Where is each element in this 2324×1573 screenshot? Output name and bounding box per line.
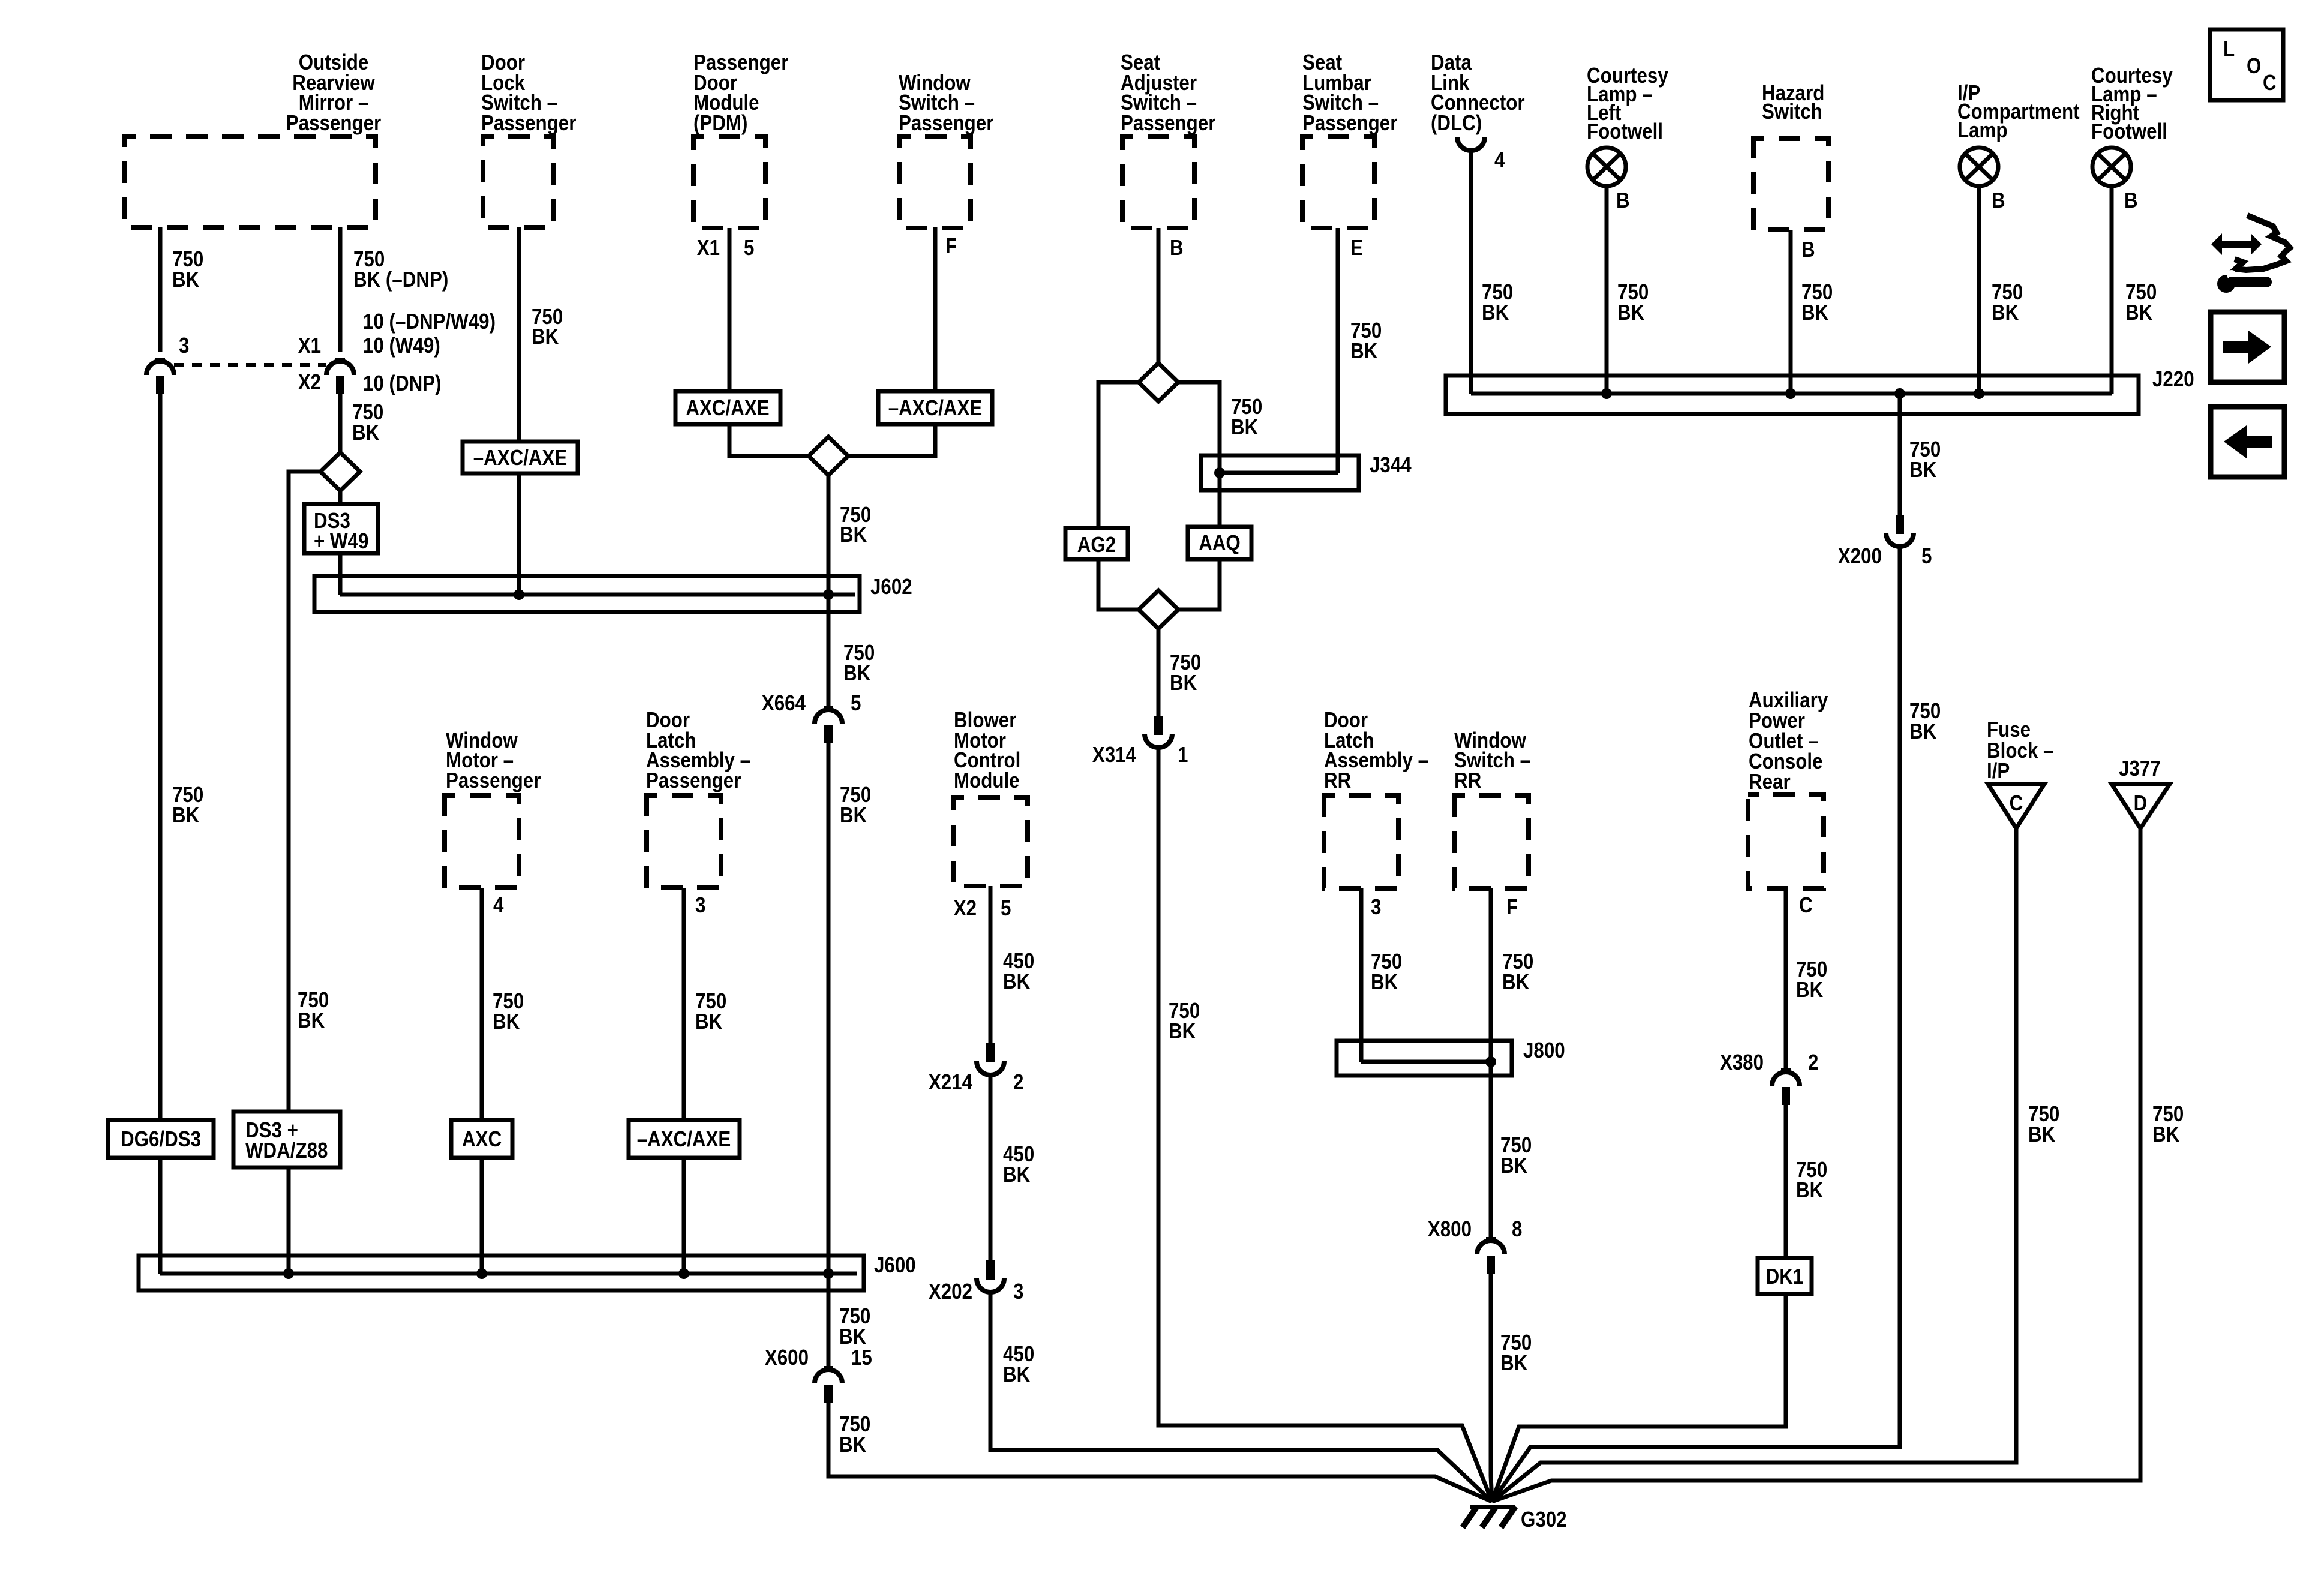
svg-text:BK: BK	[298, 1008, 325, 1033]
wire: X214 down to X202	[989, 1075, 993, 1260]
svg-text:–AXC/AXE: –AXC/AXE	[637, 1127, 731, 1152]
svg-text:F: F	[1506, 895, 1518, 920]
svg-text:J220: J220	[2152, 367, 2194, 392]
svg-text:Passenger: Passenger	[899, 111, 993, 136]
svg-text:E: E	[1350, 236, 1363, 260]
svg-text:X202: X202	[929, 1280, 972, 1304]
svg-text:X2: X2	[298, 370, 321, 395]
wire label 750 BK (I/P lamp)	[1992, 280, 2023, 325]
svg-text:F: F	[945, 234, 957, 259]
svg-text:RR: RR	[1324, 769, 1351, 793]
svg-text:BK: BK	[2152, 1122, 2180, 1147]
svg-text:BK: BK	[172, 268, 200, 292]
DLC connector arc	[1457, 137, 1485, 151]
svg-text:BK: BK	[172, 803, 200, 828]
wire: window motor down to AXC	[480, 888, 484, 1120]
svg-text:BK: BK	[1796, 1178, 1824, 1203]
component label: Door Latch Assembly - Passenger	[646, 708, 750, 793]
svg-text:X200: X200	[1838, 544, 1882, 569]
svg-text:3: 3	[1013, 1280, 1023, 1304]
component label: Seat Lumbar Switch - Passenger	[1302, 50, 1397, 136]
svg-text:BK: BK	[840, 803, 867, 828]
svg-text:D: D	[2134, 791, 2148, 816]
junction dot (AAQ chain at J344)	[1214, 467, 1225, 478]
window motor box (dashed)	[445, 795, 519, 888]
wire: lower diamond down to X314	[1157, 629, 1161, 716]
svg-text:2: 2	[1013, 1070, 1023, 1095]
wire label 750 BK (window motor)	[493, 989, 524, 1034]
wire: diamond bottom to DS3+W49 box	[338, 491, 343, 504]
svg-text:Footwell: Footwell	[2091, 119, 2167, 144]
svg-text:10 (W49): 10 (W49)	[363, 334, 440, 358]
wire: J220 down to X200	[1898, 394, 1902, 515]
door latch assembly RR box (dashed)	[1324, 795, 1398, 888]
component label: Passenger Door Module (PDM)	[693, 50, 788, 136]
svg-text:AXC: AXC	[462, 1127, 502, 1152]
inline connector X800	[1477, 1239, 1505, 1274]
svg-text:O: O	[2247, 54, 2261, 79]
wire label 750 BK (seat lumbar)	[1350, 319, 1382, 364]
svg-text:X800: X800	[1428, 1217, 1472, 1242]
svg-text:BK: BK	[352, 421, 380, 445]
wire: X202 to ground G302	[990, 1292, 1492, 1502]
splice diamond (PDM / window switch)	[809, 437, 848, 475]
svg-text:BK: BK	[1371, 970, 1398, 995]
wire label 750 BK (courtesy right)	[2125, 280, 2157, 325]
wire: courtesy lamp right down to J220	[2110, 186, 2114, 394]
svg-text:BK: BK	[1003, 969, 1031, 994]
junction dot (door lock chain at J602)	[514, 589, 524, 600]
wire: I/P compartment lamp down to J220	[1977, 186, 1981, 394]
window switch passenger box (dashed)	[900, 137, 971, 228]
svg-text:8: 8	[1512, 1217, 1522, 1242]
option box DG6/DS3	[108, 1120, 214, 1158]
component label: Fuse Block - I/P	[1987, 718, 2053, 784]
hazard switch box (dashed)	[1753, 139, 1828, 230]
svg-text:Passenger: Passenger	[646, 769, 741, 793]
svg-text:BK: BK	[1231, 415, 1259, 440]
svg-text:10 (DNP): 10 (DNP)	[363, 371, 442, 396]
component label: Window Switch - RR	[1454, 728, 1530, 793]
wire: diamond left branch down to AG2	[1098, 382, 1139, 528]
svg-text:Passenger: Passenger	[481, 111, 576, 136]
svg-text:B: B	[1992, 188, 2005, 213]
inline connector X200	[1886, 515, 1914, 547]
wire label 750 BK (below J602)	[843, 641, 875, 686]
wire label 750 BK (below X2)	[352, 400, 383, 445]
svg-text:5: 5	[744, 236, 754, 260]
svg-text:4: 4	[1494, 148, 1505, 173]
wire label 750 BK (fuse block chain)	[2028, 1102, 2059, 1147]
svg-text:BK: BK	[1992, 301, 2019, 325]
svg-text:1: 1	[1178, 743, 1188, 767]
wire: PDM pin 5 down to AXC/AXE	[728, 228, 732, 391]
wire: DS3+W49 down to J602	[338, 553, 343, 595]
svg-text:Passenger: Passenger	[286, 111, 381, 136]
component label: Window Switch - Passenger	[899, 71, 993, 136]
splice pack J602	[314, 576, 860, 612]
door latch assembly passenger box (dashed)	[647, 795, 721, 888]
splice diamond (seat adjuster top)	[1139, 363, 1178, 401]
seat lumbar switch box (dashed)	[1302, 137, 1374, 228]
dashed link between connector 3 and X1	[174, 363, 326, 367]
svg-text:J602: J602	[870, 575, 912, 599]
wire: diamond down through J602 to X664	[827, 475, 831, 708]
svg-text:Rear: Rear	[1749, 770, 1791, 794]
svg-text:AG2: AG2	[1077, 533, 1116, 557]
svg-text:X2: X2	[954, 896, 977, 921]
wire label 450 BK (blower upper)	[1003, 949, 1034, 994]
inline connector X600	[815, 1368, 842, 1403]
svg-text:5: 5	[1001, 896, 1011, 921]
LOC legend box	[2210, 29, 2283, 100]
svg-text:BK: BK	[1350, 339, 1378, 364]
wire label 750 BK (DLC)	[1482, 280, 1513, 325]
wire: seat adjuster B down to diamond	[1157, 228, 1161, 363]
svg-text:BK: BK	[695, 1010, 723, 1034]
wire: X314 to ground G302	[1158, 748, 1492, 1502]
inline connector X380	[1772, 1070, 1800, 1105]
wire: X664 down through J600 to X600	[827, 743, 831, 1368]
wire label 750 BK (X380 to DK1)	[1796, 1158, 1827, 1203]
component label: Auxiliary Power Outlet - Console Rear	[1749, 688, 1828, 794]
courtesy lamp right footwell symbol	[2092, 148, 2131, 186]
svg-text:X1: X1	[298, 334, 321, 358]
wire label 750 BK (below X800)	[1500, 1331, 1532, 1376]
option box -AXC/AXE (door lock chain)	[463, 442, 578, 473]
wire: door latch down to -AXC/AXE	[682, 888, 686, 1120]
wire label 750 BK (aux power upper)	[1796, 957, 1827, 1002]
svg-text:J377: J377	[2119, 757, 2161, 781]
svg-text:B: B	[1616, 188, 1630, 213]
svg-text:3: 3	[695, 893, 705, 918]
svg-text:B: B	[1170, 236, 1184, 260]
door lock switch box (dashed)	[483, 136, 553, 227]
wire: -AXC/AXE down to J602	[517, 473, 521, 595]
wire: DK1 to ground G302	[1492, 1294, 1786, 1502]
svg-text:BK: BK	[1482, 301, 1509, 325]
inline connector (ORM pin 3)	[146, 359, 174, 394]
wire: diamond left branch to DS3+WDA/Z88 chain	[289, 472, 320, 1112]
option box DS3 + W49	[304, 504, 378, 554]
auxiliary power outlet box (dashed)	[1748, 794, 1824, 888]
blower motor control module box (dashed)	[953, 797, 1028, 886]
junction dot (hazard at J220)	[1785, 388, 1796, 399]
svg-text:X664: X664	[762, 691, 806, 716]
junction dot (X200 branch at J220)	[1894, 388, 1905, 399]
wire label 750 BK (diamond to X314)	[1170, 650, 1201, 695]
svg-text:J344: J344	[1370, 453, 1412, 478]
svg-text:(PDM): (PDM)	[693, 111, 747, 136]
svg-text:BK: BK	[2028, 1122, 2056, 1147]
svg-text:X600: X600	[765, 1346, 809, 1370]
svg-text:BK: BK	[1170, 671, 1197, 695]
wire: X800 to ground G302	[1491, 1274, 1492, 1502]
svg-text:3: 3	[1371, 895, 1381, 920]
component label: Door Lock Switch - Passenger	[481, 50, 576, 136]
wire: ORM right pin down to connector X1	[338, 227, 343, 352]
svg-text:Module: Module	[954, 769, 1020, 793]
svg-text:BK: BK	[1500, 1351, 1528, 1376]
wire: window switch F down to -AXC/AXE	[933, 227, 938, 391]
svg-text:(DLC): (DLC)	[1431, 111, 1482, 136]
wire label 750 BK (X314 to ground)	[1169, 999, 1200, 1044]
svg-text:5: 5	[851, 691, 861, 716]
svg-text:RR: RR	[1454, 769, 1481, 793]
component label: Courtesy Lamp - Right Footwell	[2091, 64, 2173, 144]
wire: -AXC/AXE down to J600	[682, 1158, 686, 1274]
splice pack J344	[1201, 455, 1359, 490]
ground symbol G302	[1463, 1506, 1515, 1527]
svg-text:C: C	[2263, 71, 2277, 95]
svg-text:+ W49: + W49	[314, 529, 368, 554]
wire label 750 BK (J800 to X800)	[1500, 1133, 1532, 1178]
wire: AXC down to J600	[480, 1158, 484, 1274]
wire label 750 BK (door lock)	[532, 305, 563, 349]
wire: connector 3 down to DG6/DS3	[158, 386, 163, 1120]
svg-text:J800: J800	[1523, 1038, 1565, 1063]
wire label 750 BK (J220 to X200)	[1909, 437, 1941, 482]
svg-text:BK: BK	[1909, 458, 1937, 482]
inline connector X314	[1145, 716, 1172, 748]
option box DS3 + WDA/Z88	[233, 1112, 340, 1167]
wire: door lock switch B down to -AXC/AXE	[517, 227, 521, 442]
component label: Hazard Switch	[1762, 81, 1824, 124]
svg-text:BK (–DNP): BK (–DNP)	[353, 268, 448, 292]
wire label 750 BK (courtesy left)	[1617, 280, 1649, 325]
svg-text:5: 5	[1921, 544, 1932, 569]
svg-text:C: C	[1799, 893, 1813, 918]
wire label 750 BK (J600 to X600)	[839, 1304, 870, 1349]
svg-text:–AXC/AXE: –AXC/AXE	[473, 446, 568, 470]
wire label 750 BK (ORM left lower)	[172, 783, 203, 828]
svg-text:X314: X314	[1092, 743, 1136, 767]
wire: hazard switch down to J220	[1789, 230, 1793, 394]
fuse block triangle C	[1988, 784, 2044, 828]
svg-text:BK: BK	[532, 325, 559, 349]
svg-text:AAQ: AAQ	[1199, 531, 1241, 556]
svg-text:BK: BK	[1617, 301, 1645, 325]
inline connector X214	[977, 1043, 1004, 1075]
inline connector X202	[977, 1260, 1004, 1292]
wire: door latch RR down to J800	[1359, 888, 1364, 1062]
vehicle direction icon with double arrow and wrench	[2211, 215, 2290, 293]
svg-text:BK: BK	[2125, 301, 2153, 325]
svg-text:Passenger: Passenger	[1302, 111, 1397, 136]
left arrow legend box	[2211, 407, 2284, 477]
wire: AXC/AXE to splice diamond	[729, 424, 809, 456]
splice diamond (seat adjuster bottom)	[1139, 590, 1178, 629]
wire: -AXC/AXE to splice diamond	[848, 424, 935, 456]
window switch RR box (dashed)	[1454, 795, 1529, 888]
option box -AXC/AXE (door latch chain)	[629, 1120, 740, 1158]
wire: X600 to ground G302	[828, 1403, 1492, 1502]
svg-text:BK: BK	[493, 1010, 520, 1034]
svg-text:Lamp: Lamp	[1957, 118, 2008, 143]
seat adjuster switch box (dashed)	[1122, 137, 1194, 228]
svg-text:BK: BK	[840, 523, 867, 547]
inline connector X1/X2	[326, 359, 354, 394]
svg-text:X380: X380	[1720, 1050, 1764, 1075]
svg-text:BK: BK	[1909, 719, 1937, 744]
component label: I/P Compartment Lamp	[1957, 81, 2080, 143]
wire label 750 BK (door latch RR)	[1371, 950, 1402, 995]
wire label 750 BK (diamond to J602)	[840, 503, 871, 547]
svg-text:Footwell: Footwell	[1587, 119, 1663, 144]
I/P compartment lamp symbol	[1960, 148, 1998, 186]
component label: Outside Rearview Mirror - Passenger	[286, 50, 381, 136]
J377 triangle D	[2112, 784, 2170, 828]
wire: AG2 down to lower diamond	[1098, 559, 1139, 610]
svg-text:Passenger: Passenger	[1121, 111, 1215, 136]
svg-text:BK: BK	[1500, 1154, 1528, 1178]
wire: J377 D to ground G302	[1492, 828, 2140, 1502]
connector option labels 10	[363, 310, 496, 396]
option box AG2	[1065, 528, 1128, 559]
wire: courtesy lamp left down to J220	[1605, 186, 1609, 394]
option box AXC/AXE	[675, 391, 780, 424]
wire: seat lumbar E down to J344	[1336, 228, 1340, 473]
svg-text:J600: J600	[874, 1253, 916, 1278]
junction dot (I/P lamp at J220)	[1974, 388, 1984, 399]
svg-text:BK: BK	[1003, 1362, 1031, 1387]
svg-text:X1: X1	[697, 236, 720, 260]
component label: Data Link Connector (DLC)	[1431, 50, 1525, 136]
wire label 750 BK (J377 chain)	[2152, 1102, 2184, 1147]
wire label 750 BK (door latch passenger)	[695, 989, 726, 1034]
wire: diamond right branch down through J344 to AAQ	[1178, 382, 1220, 527]
svg-text:2: 2	[1808, 1050, 1818, 1075]
svg-text:10 (–DNP/W49): 10 (–DNP/W49)	[363, 310, 496, 334]
wire label 750 BK (seat adjuster right branch)	[1231, 395, 1262, 440]
wire: X2 down to diamond	[338, 386, 343, 452]
option box -AXC/AXE (window switch chain)	[878, 391, 992, 424]
component label: Window Motor - Passenger	[446, 728, 541, 793]
junction dot (door latch chain at J600)	[678, 1268, 689, 1279]
junction dot (window motor chain at J600)	[476, 1268, 487, 1279]
wire label 750 BK (-DNP)	[353, 247, 448, 292]
svg-text:B: B	[2124, 188, 2138, 213]
wire label 450 BK (blower middle)	[1003, 1142, 1034, 1187]
svg-text:DK1: DK1	[1766, 1265, 1804, 1289]
wire label 750 BK (window switch RR)	[1502, 950, 1533, 995]
svg-text:BK: BK	[1502, 970, 1530, 995]
option box DK1	[1758, 1258, 1812, 1294]
wire label 750 BK (below X600)	[839, 1412, 870, 1457]
wire: window switch RR down through J800 to X800	[1489, 888, 1493, 1239]
wire: DG6/DS3 down to J600	[158, 1158, 163, 1274]
wire label 750 BK (X664 to J600)	[840, 783, 871, 828]
wire: X380 down to DK1	[1784, 1105, 1788, 1258]
svg-text:X214: X214	[929, 1070, 972, 1095]
junction dot (X664 chain at J600)	[823, 1268, 834, 1279]
wire: AAQ down to lower diamond	[1179, 559, 1220, 610]
wire: ORM left pin down to connector 3	[158, 227, 163, 352]
svg-text:I/P: I/P	[1987, 759, 2010, 784]
svg-text:15: 15	[851, 1346, 872, 1370]
wire label 450 BK (blower lower)	[1003, 1342, 1034, 1387]
splice pack J800	[1337, 1041, 1512, 1076]
svg-text:C: C	[2010, 791, 2023, 816]
svg-text:WDA/Z88: WDA/Z88	[245, 1139, 328, 1163]
svg-text:BK: BK	[1796, 978, 1824, 1002]
passenger door module box (dashed)	[693, 137, 765, 228]
junction dot (window switch RR at J800)	[1485, 1056, 1496, 1067]
svg-text:BK: BK	[1169, 1019, 1196, 1044]
wire label 750 BK (ORM left)	[172, 247, 203, 292]
svg-text:DG6/DS3: DG6/DS3	[121, 1127, 201, 1152]
wire: DS3+WDA/Z88 down to J600	[287, 1167, 291, 1274]
splice pack J600	[139, 1256, 864, 1290]
splice pack J220	[1446, 376, 2139, 414]
wire: blower down to X214	[989, 886, 993, 1043]
component label: Blower Motor Control Module	[954, 708, 1020, 793]
svg-text:4: 4	[493, 893, 504, 918]
option box AXC	[451, 1120, 512, 1158]
right arrow legend box	[2211, 312, 2284, 382]
junction dot (diamond chain at J602)	[823, 589, 834, 600]
junction dot (courtesy left at J220)	[1601, 388, 1612, 399]
wire: DLC down to J220	[1469, 151, 1473, 394]
junction dot (DS3+WDA chain at J600)	[283, 1268, 294, 1279]
option box AAQ	[1188, 527, 1251, 559]
svg-text:Passenger: Passenger	[446, 769, 541, 793]
component label: Seat Adjuster Switch - Passenger	[1121, 50, 1215, 136]
svg-text:–AXC/AXE: –AXC/AXE	[888, 396, 983, 421]
wire: X200 to ground G302	[1492, 547, 1900, 1502]
svg-text:G302: G302	[1521, 1508, 1567, 1532]
component label: Courtesy Lamp - Left Footwell	[1587, 64, 1668, 144]
svg-text:B: B	[1801, 238, 1815, 262]
wire: aux power outlet down to X380	[1784, 888, 1788, 1070]
component label: Door Latch Assembly - RR	[1324, 708, 1428, 793]
inline connector X664	[815, 708, 842, 743]
splice diamond (DS3+W49 branch)	[320, 452, 360, 491]
svg-text:AXC/AXE: AXC/AXE	[686, 396, 769, 421]
svg-text:BK: BK	[1003, 1163, 1031, 1187]
svg-text:Switch: Switch	[1762, 100, 1822, 124]
wire label 750 BK (hazard)	[1801, 280, 1833, 325]
courtesy lamp left footwell symbol	[1587, 148, 1626, 186]
svg-text:L: L	[2223, 37, 2235, 62]
outside rearview mirror box (dashed)	[125, 136, 376, 227]
wire label 750 BK (DS3+WDA chain)	[298, 988, 329, 1033]
svg-text:3: 3	[179, 334, 189, 358]
wire: fuse block C to ground G302	[1492, 828, 2016, 1502]
wire label 750 BK (X200 to ground)	[1909, 699, 1941, 744]
svg-text:BK: BK	[843, 661, 871, 686]
svg-text:BK: BK	[1801, 301, 1829, 325]
svg-text:BK: BK	[839, 1433, 867, 1457]
